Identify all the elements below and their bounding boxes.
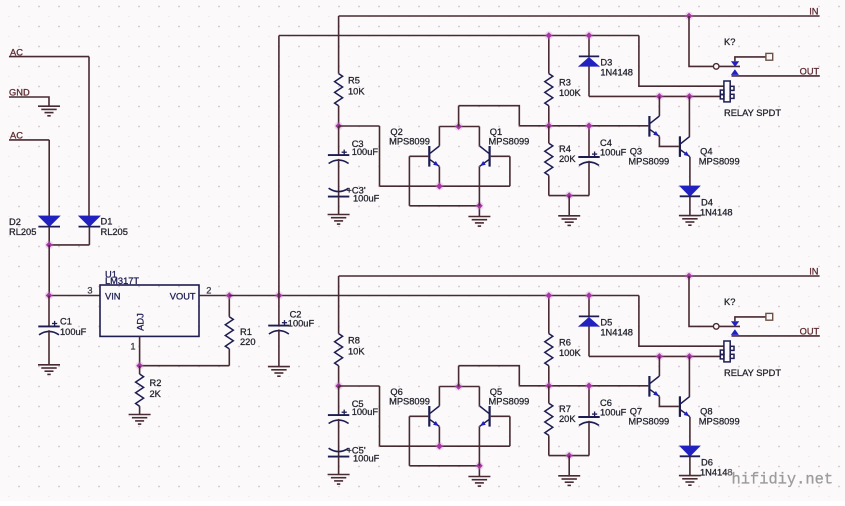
svg-text:Q5: Q5 [490, 387, 502, 397]
wire [379, 126, 381, 186]
wire [548, 36, 550, 74]
ground (D4) [679, 216, 701, 226]
junction (rectifier node) [45, 241, 53, 249]
svg-text:Q1: Q1 [490, 127, 502, 137]
ground (divider) [558, 476, 580, 486]
junction [545, 31, 553, 39]
transistor Q1 MPS8099 [480, 127, 530, 167]
wire (Q3 collector) [658, 96, 660, 116]
wire [338, 126, 340, 155]
relay NO contact arrow [731, 329, 739, 335]
ground (D6) [679, 476, 701, 486]
svg-text:R7: R7 [559, 404, 571, 414]
wire [509, 416, 511, 446]
wire [228, 296, 230, 317]
wire (coil drive) [589, 355, 720, 357]
svg-text:R2: R2 [150, 378, 162, 388]
transistor Q2 MPS8099 [389, 127, 439, 167]
wire [48, 296, 50, 327]
svg-text:Q8: Q8 [700, 407, 712, 417]
wire [49, 244, 89, 246]
ground (C5') [328, 475, 350, 485]
svg-text:R1: R1 [240, 327, 252, 337]
port OUT [800, 327, 820, 337]
wire [478, 466, 480, 477]
relay terminal square [766, 313, 773, 320]
wire (contact arm) [735, 57, 766, 61]
svg-text:MPS8099: MPS8099 [628, 417, 669, 427]
label D1 [101, 217, 113, 227]
relay terminal square [766, 53, 773, 60]
wire [139, 366, 141, 374]
junction (C2 node) [275, 291, 283, 299]
wire (Q7 collector) [658, 356, 660, 376]
junction [435, 182, 443, 190]
junction [585, 382, 593, 390]
wire [338, 16, 340, 74]
wire (contact arm) [735, 317, 766, 321]
wire [549, 195, 589, 197]
wire [548, 126, 550, 143]
junction (divider) [545, 382, 553, 390]
junction (VIN node) [45, 291, 53, 299]
wire [588, 386, 590, 417]
wire (to relay coil 1) [639, 36, 724, 87]
wire (Q1 base) [491, 155, 510, 157]
svg-text:100uF: 100uF [353, 454, 380, 464]
svg-text:100uF: 100uF [352, 147, 379, 157]
svg-text:C1: C1 [60, 317, 72, 327]
svg-text:D3: D3 [600, 57, 612, 67]
relay NC contact arrow [731, 61, 739, 66]
wire [689, 457, 691, 476]
svg-text:20K: 20K [559, 154, 576, 164]
svg-text:10K: 10K [348, 87, 365, 97]
wire [588, 66, 590, 96]
wire (Q8 collector) [688, 356, 690, 396]
junction (collector node) [454, 382, 462, 390]
svg-text:1N4148: 1N4148 [600, 67, 633, 77]
junction [585, 291, 593, 299]
wire [568, 196, 570, 216]
capacitor C3 100uF [328, 139, 378, 164]
svg-text:MPS8099: MPS8099 [489, 396, 530, 406]
wire [548, 366, 550, 386]
wire [48, 330, 50, 365]
svg-text:R5: R5 [348, 75, 360, 85]
label K? [724, 297, 735, 307]
wire [88, 227, 90, 245]
ground (R2) [129, 415, 151, 425]
junction (collector node) [454, 122, 462, 130]
port AC (bottom) [10, 130, 23, 140]
wire [719, 325, 740, 327]
svg-text:100uF: 100uF [353, 194, 380, 204]
label RELAY SPDT [724, 108, 781, 118]
capacitor C2 100uF [268, 309, 314, 334]
wire [548, 175, 550, 195]
wire [380, 185, 510, 187]
port GND [9, 88, 30, 98]
svg-text:Q7: Q7 [630, 407, 642, 417]
junction (emitter-ground) [475, 202, 483, 210]
wire (Q7 emitter) [659, 397, 678, 407]
wire (supply riser) [278, 36, 280, 296]
wire [719, 65, 740, 67]
wire [409, 205, 479, 207]
wire [380, 445, 510, 447]
resistor R6 100K [545, 334, 582, 366]
wire [339, 125, 380, 127]
wire [338, 457, 340, 475]
wire (pin 3) [49, 295, 100, 297]
svg-text:Q2: Q2 [390, 127, 402, 137]
svg-text:100K: 100K [559, 88, 582, 98]
wire (Q2 base) [409, 155, 428, 157]
wire [439, 386, 479, 388]
svg-text:RL205: RL205 [9, 227, 36, 237]
svg-text:D4: D4 [701, 198, 713, 208]
op-amp U1 LM317T [100, 269, 199, 336]
wire (Q2 emitter) [438, 167, 440, 187]
svg-text:AC: AC [10, 130, 23, 140]
diode D6 1N4148 [680, 446, 733, 478]
wire [9, 97, 49, 106]
transistor Q5 MPS8099 [480, 387, 530, 427]
capacitor C4 100uF [578, 138, 626, 165]
svg-text:D1: D1 [101, 217, 113, 227]
junction [685, 352, 693, 360]
ground (divider) [558, 216, 580, 226]
svg-text:RELAY SPDT: RELAY SPDT [724, 108, 781, 118]
svg-text:R8: R8 [348, 335, 360, 345]
port AC (top) [10, 47, 23, 57]
junction [545, 291, 553, 299]
svg-text:100uF: 100uF [600, 408, 627, 418]
svg-text:VOUT: VOUT [170, 291, 196, 301]
junction [655, 352, 663, 360]
wire [139, 406, 141, 414]
wire (Q5 collector) [478, 387, 480, 406]
wire [278, 329, 280, 366]
wire [379, 386, 381, 446]
wire [338, 386, 340, 415]
svg-text:Q4: Q4 [700, 147, 712, 157]
resistor R4 20K [545, 143, 577, 175]
svg-text:Q3: Q3 [630, 147, 642, 157]
capacitor C5' 100uF [328, 446, 380, 464]
svg-text:LM317T: LM317T [105, 276, 139, 286]
svg-text:K?: K? [724, 37, 735, 47]
port OUT [800, 67, 820, 77]
capacitor C5 100uF [328, 399, 378, 424]
wire (base rail) [519, 125, 648, 127]
svg-text:100uF: 100uF [352, 407, 379, 417]
pin number 3 [87, 285, 92, 295]
resistor R1 220 [225, 317, 255, 349]
wire [439, 126, 479, 128]
pin number 2 [206, 285, 211, 295]
diode D5 1N4148 [579, 316, 633, 337]
wire [689, 197, 691, 216]
wire (ch1 supply rail) [279, 35, 639, 37]
wire (pin 1) [139, 337, 141, 366]
wire [459, 366, 520, 386]
pin number 1 [130, 342, 135, 352]
capacitor C6 100uF [578, 398, 626, 425]
svg-text:K?: K? [724, 297, 735, 307]
wire [48, 245, 50, 296]
wire [588, 161, 590, 196]
svg-text:MPS8099: MPS8099 [628, 157, 669, 167]
wire [140, 365, 230, 367]
wire (IN rail IN) [339, 275, 820, 277]
label RL205 (D2) [9, 227, 36, 237]
svg-text:100uF: 100uF [60, 327, 87, 337]
wire [409, 465, 479, 467]
port IN [809, 266, 818, 276]
wire (to relay coil 2) [639, 296, 724, 347]
label D2 [9, 217, 21, 227]
ground (GND port) [38, 106, 60, 116]
svg-text:R4: R4 [559, 144, 571, 154]
wire [338, 159, 340, 197]
wire (Q5 emitter) [478, 427, 480, 466]
junction (emitter-ground) [475, 462, 483, 470]
wire (IN rail IN) [339, 15, 820, 17]
wire (Q6 emitter) [438, 427, 440, 447]
svg-text:RL205: RL205 [101, 227, 128, 237]
svg-text:MPS8099: MPS8099 [699, 157, 740, 167]
wire (Q5 base) [491, 415, 510, 417]
wire [228, 349, 230, 366]
svg-text:RELAY SPDT: RELAY SPDT [724, 368, 781, 378]
wire [338, 366, 340, 386]
wire (Q4 collector) [688, 96, 690, 136]
svg-text:GND: GND [9, 88, 30, 98]
label K? [724, 37, 735, 47]
wire [509, 156, 511, 186]
wire (Q4 emitter) [689, 157, 691, 186]
junction [655, 92, 663, 100]
watermark hifidiy.net [732, 471, 834, 489]
diode D4 1N4148 [680, 186, 733, 218]
svg-text:MPS8099: MPS8099 [389, 136, 430, 146]
capacitor C3' 100uF [328, 186, 380, 204]
wire [338, 106, 340, 126]
wire [88, 57, 90, 216]
svg-text:100uF: 100uF [600, 148, 627, 158]
wire (Q6 base) [409, 415, 428, 417]
svg-text:D6: D6 [701, 458, 713, 468]
wire [408, 156, 410, 206]
svg-text:D2: D2 [9, 217, 21, 227]
relay coil K? [720, 341, 734, 362]
svg-text:MPS8099: MPS8099 [489, 136, 530, 146]
svg-text:1N4148: 1N4148 [700, 468, 733, 478]
transistor Q8 MPS8099 [680, 396, 740, 426]
svg-text:MPS8099: MPS8099 [389, 396, 430, 406]
wire [459, 106, 520, 126]
svg-text:D5: D5 [600, 317, 612, 327]
wire [278, 296, 280, 326]
resistor R5 10K [335, 74, 366, 106]
svg-text:R3: R3 [559, 78, 571, 88]
junction [435, 442, 443, 450]
svg-text:Q6: Q6 [390, 387, 402, 397]
relay NO contact arrow [731, 69, 739, 75]
wire (Q2 collector) [438, 127, 440, 146]
svg-text:20K: 20K [559, 414, 576, 424]
wire (to contact common) [689, 276, 713, 326]
junction [685, 92, 693, 100]
wire [9, 139, 49, 141]
transistor Q6 MPS8099 [389, 387, 439, 427]
relay coil K? [720, 81, 734, 102]
svg-text:220: 220 [240, 337, 256, 347]
label RELAY SPDT [724, 368, 781, 378]
junction [585, 31, 593, 39]
resistor R3 100K [545, 74, 582, 106]
wire [338, 197, 340, 215]
svg-text:OUT: OUT [800, 67, 820, 77]
svg-text:IN: IN [809, 6, 818, 16]
svg-text:100uF: 100uF [288, 318, 315, 328]
ground (pair) [468, 217, 490, 227]
label RL205 (D1) [101, 227, 128, 237]
wire [458, 106, 460, 127]
junction (below R5) [334, 122, 342, 130]
wire (pin 2) [199, 295, 229, 297]
wire [548, 106, 550, 126]
ground (C3') [328, 215, 350, 225]
wire [549, 455, 589, 457]
wire [408, 416, 410, 466]
wire [338, 276, 340, 334]
resistor R8 10K [335, 334, 366, 366]
wire (coil drive) [589, 95, 720, 97]
ground (C2) [268, 367, 290, 377]
wire [339, 385, 380, 387]
junction [565, 451, 573, 459]
wire (base rail) [519, 385, 648, 387]
junction (R1 top) [225, 291, 233, 299]
relay contact common [713, 64, 719, 70]
wire [548, 386, 550, 403]
wire [9, 56, 89, 58]
relay contact common [713, 324, 719, 330]
transistor Q7 MPS8099 [628, 376, 669, 427]
wire [548, 435, 550, 455]
svg-text:2K: 2K [150, 389, 162, 399]
svg-text:100K: 100K [559, 348, 582, 358]
transistor Q4 MPS8099 [680, 136, 740, 166]
svg-text:2: 2 [206, 285, 211, 295]
wire (OUT OUT) [732, 335, 820, 337]
wire (Q1 collector) [478, 127, 480, 146]
wire [568, 456, 570, 476]
wire (Q1 emitter) [478, 167, 480, 206]
wire [338, 419, 340, 457]
junction (IN tap) [685, 272, 693, 280]
svg-text:1N4148: 1N4148 [700, 208, 733, 218]
wire [478, 206, 480, 217]
port IN [809, 6, 818, 16]
wire (OUT OUT) [732, 75, 820, 77]
svg-text:1: 1 [130, 342, 135, 352]
junction (ADJ node) [135, 362, 143, 370]
resistor R7 20K [545, 403, 577, 435]
wire (Q8 emitter) [689, 417, 691, 446]
wire [548, 296, 550, 334]
wire [588, 126, 590, 157]
svg-text:3: 3 [87, 285, 92, 295]
wire (Q6 collector) [438, 387, 440, 406]
wire [588, 421, 590, 456]
wire [588, 326, 590, 356]
junction (divider) [545, 122, 553, 130]
wire (to contact common) [689, 16, 713, 66]
relay NC contact arrow [731, 321, 739, 326]
ground (pair) [468, 477, 490, 487]
diode D1 body [79, 216, 101, 227]
wire (VOUT rail) [229, 295, 639, 297]
wire [458, 366, 460, 387]
wire [48, 140, 50, 216]
junction (below R8) [334, 382, 342, 390]
resistor R2 2K [136, 374, 162, 406]
svg-text:hifidiy.net: hifidiy.net [732, 471, 834, 489]
diode D2 body [38, 216, 60, 227]
transistor Q3 MPS8099 [628, 116, 669, 167]
capacitor C1 100uF [38, 317, 86, 337]
junction [585, 122, 593, 130]
wire (Q3 emitter) [659, 137, 678, 147]
svg-text:MPS8099: MPS8099 [699, 417, 740, 427]
diode D3 1N4148 [579, 56, 633, 77]
svg-text:OUT: OUT [800, 327, 820, 337]
svg-text:10K: 10K [348, 347, 365, 357]
svg-text:IN: IN [809, 266, 818, 276]
wire [588, 296, 590, 317]
wire [588, 36, 590, 57]
svg-text:VIN: VIN [105, 291, 121, 301]
wire [48, 227, 50, 245]
svg-text:R6: R6 [559, 338, 571, 348]
svg-text:1N4148: 1N4148 [600, 327, 633, 337]
junction (IN tap) [685, 12, 693, 20]
svg-text:ADJ: ADJ [136, 313, 146, 331]
ground (C1) [38, 365, 60, 375]
junction [565, 191, 573, 199]
